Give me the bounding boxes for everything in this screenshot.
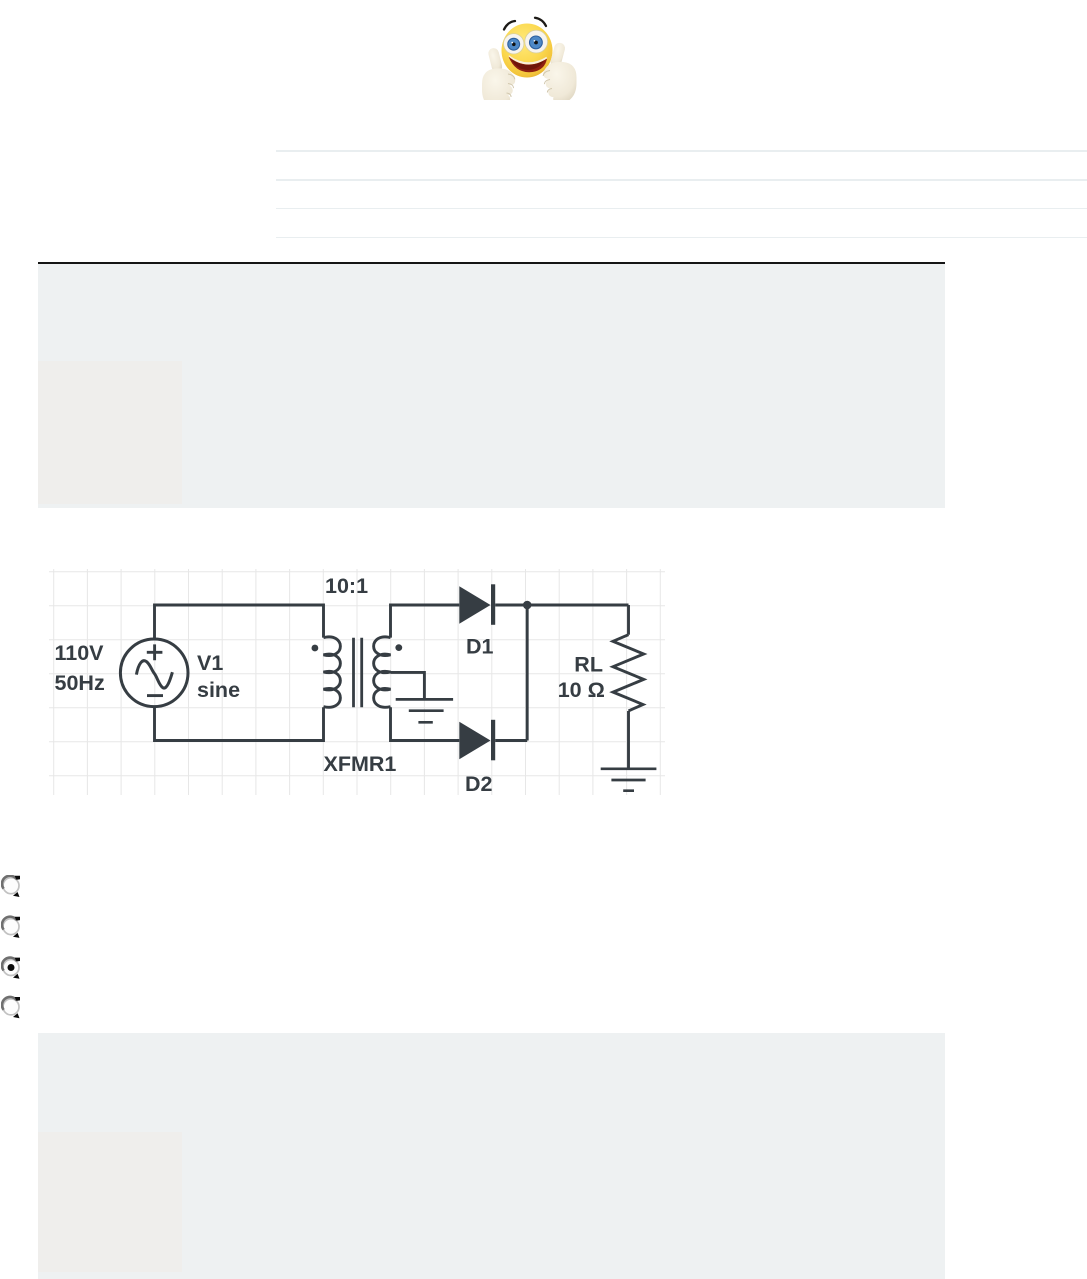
svg-text:10 Ω: 10 Ω [558, 678, 605, 702]
svg-text:50Hz: 50Hz [55, 671, 105, 695]
svg-text:D1: D1 [466, 634, 494, 658]
svg-text:D2: D2 [465, 772, 493, 795]
svg-text:sine: sine [197, 678, 240, 702]
svg-text:10:1: 10:1 [325, 574, 368, 598]
svg-text:110V: 110V [55, 641, 105, 665]
svg-text:XFMR1: XFMR1 [324, 752, 397, 776]
svg-text:V1: V1 [197, 651, 223, 675]
svg-text:RL: RL [574, 652, 603, 676]
